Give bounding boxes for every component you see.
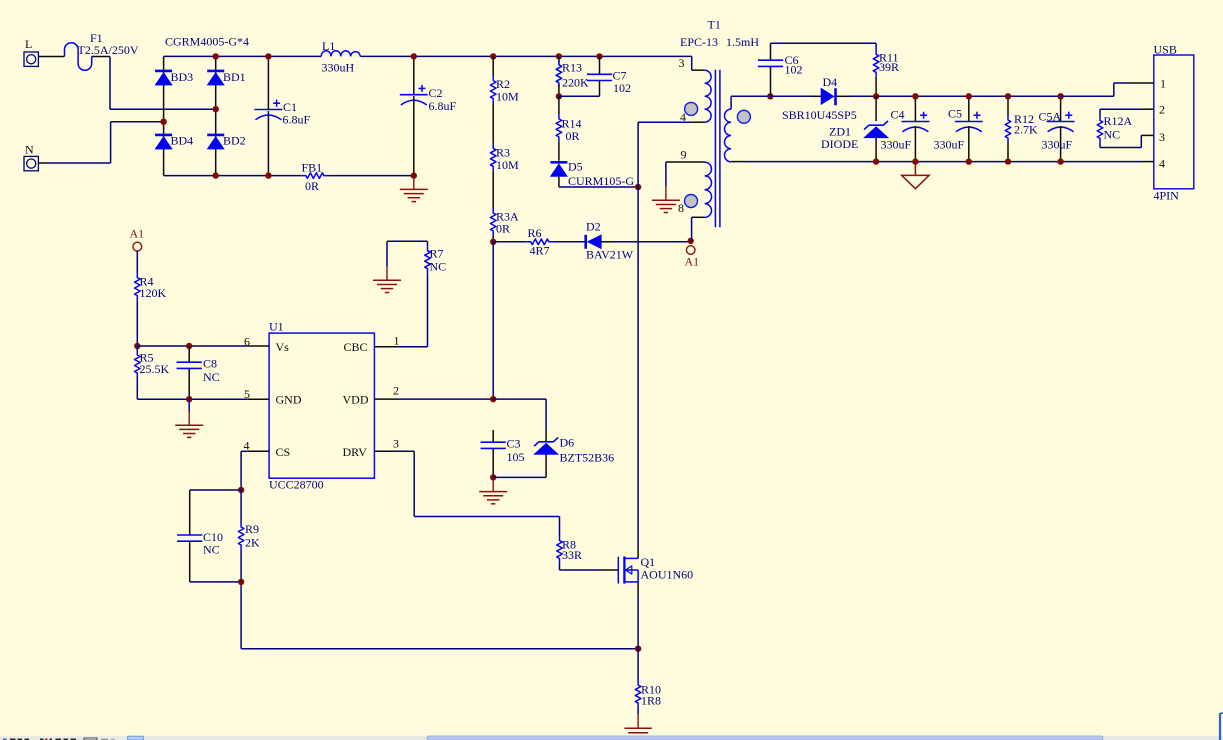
svg-text:FB1: FB1 — [302, 161, 323, 175]
svg-text:DRV: DRV — [343, 445, 368, 459]
svg-text:6.8uF: 6.8uF — [429, 99, 457, 113]
svg-text:102: 102 — [613, 81, 631, 95]
svg-text:A1: A1 — [685, 255, 700, 269]
svg-text:4: 4 — [244, 439, 250, 453]
svg-text:6.8uF: 6.8uF — [283, 113, 311, 127]
svg-text:1: 1 — [394, 334, 400, 348]
svg-text:R12A: R12A — [1104, 114, 1133, 128]
svg-text:4PIN: 4PIN — [1154, 189, 1180, 203]
svg-text:3: 3 — [679, 56, 685, 70]
svg-text:1.5mH: 1.5mH — [726, 35, 759, 49]
svg-text:CBC: CBC — [344, 340, 368, 354]
svg-text:330uH: 330uH — [322, 61, 355, 75]
svg-text:L1: L1 — [322, 39, 335, 53]
svg-text:D6: D6 — [560, 436, 575, 450]
svg-text:C5: C5 — [948, 107, 962, 121]
svg-text:10M: 10M — [496, 90, 519, 104]
svg-text:NC: NC — [430, 260, 447, 274]
svg-text:BAV21W: BAV21W — [586, 248, 634, 262]
svg-text:T1: T1 — [708, 18, 721, 32]
svg-text:1R8: 1R8 — [641, 694, 661, 708]
svg-text:R9: R9 — [245, 522, 259, 536]
svg-text:2K: 2K — [245, 536, 260, 550]
svg-text:2: 2 — [393, 384, 399, 398]
svg-text:D4: D4 — [823, 75, 838, 89]
svg-text:A1: A1 — [130, 227, 145, 241]
svg-text:BD2: BD2 — [223, 134, 246, 148]
svg-text:0R: 0R — [496, 222, 510, 236]
svg-text:R13: R13 — [562, 61, 582, 75]
svg-text:USB: USB — [1154, 43, 1177, 57]
svg-text:8: 8 — [678, 201, 684, 215]
svg-text:9: 9 — [681, 148, 687, 162]
svg-text:105: 105 — [507, 450, 525, 464]
svg-text:U1: U1 — [269, 320, 284, 334]
svg-text:C5A: C5A — [1039, 110, 1062, 124]
svg-text:BD1: BD1 — [223, 70, 246, 84]
svg-text:L: L — [25, 37, 32, 51]
svg-text:330uF: 330uF — [934, 138, 965, 152]
svg-text:CURM105-G: CURM105-G — [568, 174, 634, 188]
svg-text:120K: 120K — [140, 286, 167, 300]
svg-text:4R7: 4R7 — [530, 244, 550, 258]
svg-text:BZT52B36: BZT52B36 — [560, 451, 615, 465]
svg-text:N: N — [25, 143, 34, 157]
svg-text:C8: C8 — [203, 357, 217, 371]
svg-text:BD4: BD4 — [171, 134, 194, 148]
svg-text:VDD: VDD — [343, 393, 369, 407]
svg-text:220K: 220K — [562, 76, 589, 90]
svg-text:GND: GND — [276, 393, 302, 407]
svg-text:UCC28700: UCC28700 — [269, 478, 324, 492]
svg-text:R7: R7 — [430, 247, 444, 261]
svg-text:CS: CS — [276, 445, 291, 459]
svg-text:SBR10U45SP5: SBR10U45SP5 — [782, 108, 857, 122]
svg-text:NC: NC — [1104, 128, 1121, 142]
svg-text:3: 3 — [1159, 130, 1165, 144]
svg-text:BD3: BD3 — [171, 70, 194, 84]
svg-text:4: 4 — [1159, 157, 1165, 171]
svg-text:T2.5A/250V: T2.5A/250V — [78, 43, 139, 57]
svg-text:D5: D5 — [568, 160, 583, 174]
svg-text:C4: C4 — [891, 108, 905, 122]
svg-text:R6: R6 — [528, 226, 542, 240]
svg-text:33R: 33R — [562, 548, 582, 562]
svg-text:1: 1 — [1160, 77, 1166, 91]
svg-text:0R: 0R — [566, 129, 580, 143]
svg-text:NC: NC — [203, 370, 220, 384]
svg-text:CGRM4005-G*4: CGRM4005-G*4 — [165, 35, 249, 49]
svg-text:NC: NC — [203, 543, 220, 557]
svg-text:Vs: Vs — [276, 340, 290, 354]
svg-text:C3: C3 — [507, 437, 521, 451]
svg-text:39R: 39R — [879, 60, 899, 74]
svg-text:C2: C2 — [429, 86, 443, 100]
svg-text:2: 2 — [1159, 103, 1165, 117]
svg-text:330uF: 330uF — [1042, 138, 1073, 152]
svg-text:DIODE: DIODE — [821, 137, 858, 151]
svg-text:D2: D2 — [586, 220, 601, 234]
svg-text:330uF: 330uF — [881, 138, 912, 152]
svg-text:AOU1N60: AOU1N60 — [641, 568, 694, 582]
svg-text:25.5K: 25.5K — [140, 362, 170, 376]
svg-text:2.7K: 2.7K — [1014, 123, 1038, 137]
svg-text:EPC-13: EPC-13 — [680, 35, 718, 49]
svg-text:0R: 0R — [305, 179, 319, 193]
svg-text:102: 102 — [785, 63, 803, 77]
svg-text:3: 3 — [393, 437, 399, 451]
svg-text:10M: 10M — [496, 158, 519, 172]
